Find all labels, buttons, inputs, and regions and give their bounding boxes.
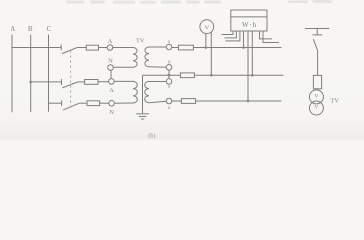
svg-text:TV: TV [136, 38, 145, 45]
svg-text:(b): (b) [148, 133, 155, 140]
svg-text:A: A [108, 38, 113, 45]
svg-text:N: N [109, 109, 114, 116]
svg-text:V: V [205, 25, 210, 32]
svg-text:A: A [10, 25, 15, 33]
svg-text:TV: TV [331, 98, 340, 105]
svg-text:V: V [314, 94, 318, 100]
svg-text:V: V [314, 105, 318, 111]
svg-text:N: N [108, 58, 113, 65]
svg-text:B: B [28, 25, 33, 33]
svg-text:A: A [109, 87, 114, 94]
svg-text:W·h: W·h [242, 22, 257, 29]
svg-text:C: C [47, 25, 52, 33]
